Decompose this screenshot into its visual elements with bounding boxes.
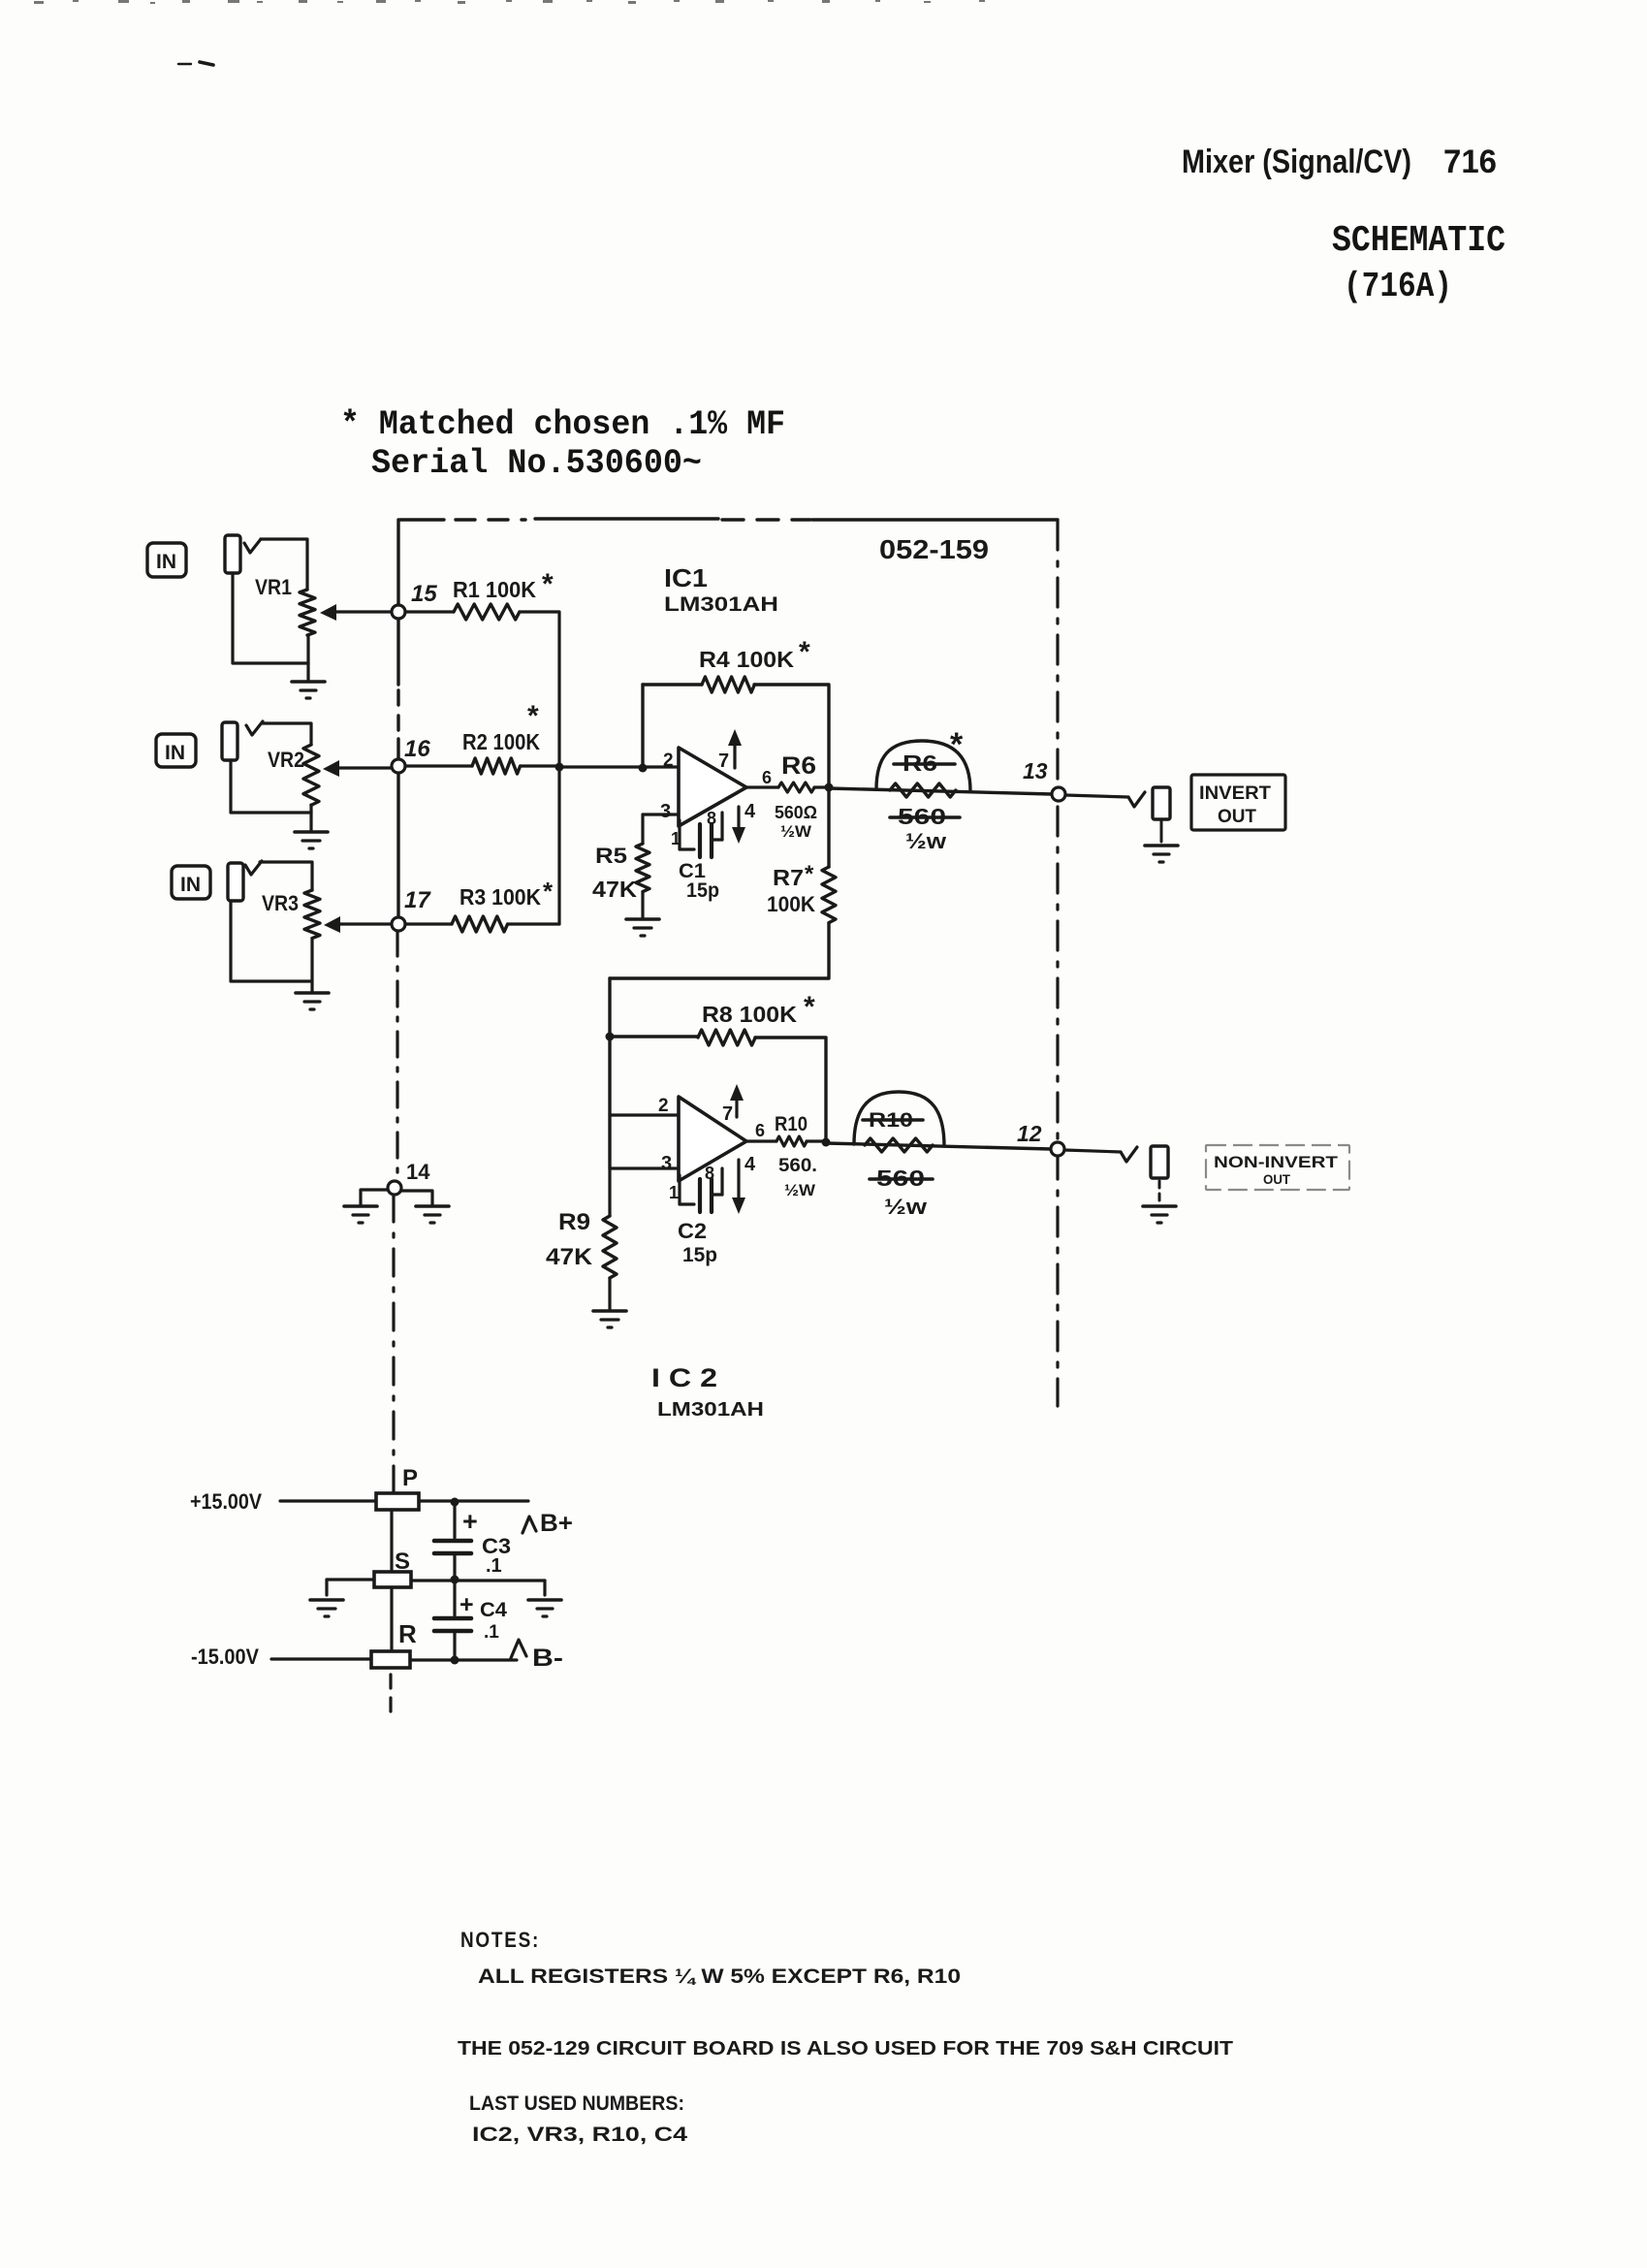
- wire R1 to bus2: [520, 610, 559, 613]
- ground VR3: [296, 993, 329, 1009]
- svg-text:100K: 100K: [767, 892, 815, 916]
- potentiometer VR1: [300, 590, 315, 663]
- svg-text:16: 16: [404, 736, 430, 762]
- NON-INVERT OUT box: [1206, 1145, 1349, 1190]
- connector S: [374, 1572, 411, 1587]
- wire opamp2 out: [746, 1139, 776, 1142]
- svg-text:2: 2: [658, 1096, 669, 1116]
- svg-text:IN: IN: [156, 551, 176, 573]
- ground R9: [593, 1311, 626, 1327]
- label VR3: [262, 891, 299, 915]
- svg-text:SCHEMATIC: SCHEMATIC: [1332, 220, 1505, 262]
- svg-text:C2: C2: [678, 1219, 707, 1243]
- op-amp IC2 triangle: [679, 1097, 746, 1181]
- crossed label R6 trim: [894, 751, 955, 776]
- pin 4 label IC1: [744, 801, 756, 822]
- svg-text:R7: R7: [773, 865, 804, 890]
- svg-text:.1: .1: [486, 1555, 502, 1577]
- ground VR2: [295, 832, 328, 848]
- svg-text:R8 100K: R8 100K: [702, 1002, 797, 1027]
- wire opamp1 out: [746, 785, 778, 788]
- pin 6 label IC2: [755, 1121, 765, 1140]
- svg-text:NON-INVERT: NON-INVERT: [1214, 1153, 1339, 1171]
- label IC2 LM301AH: [657, 1399, 764, 1421]
- label R10: [775, 1113, 808, 1135]
- svg-text:2: 2: [663, 751, 674, 771]
- pin 7 supply arrow IC1: [728, 729, 742, 768]
- wire pot2 to ground: [309, 813, 312, 830]
- wire node13 to jack: [1065, 795, 1128, 797]
- svg-text:3: 3: [661, 1153, 672, 1174]
- wire pot3 to ground: [310, 981, 313, 991]
- resistor R4: [702, 677, 754, 692]
- trimmer dome R10: [854, 1092, 944, 1146]
- svg-text:IC2, VR3, R10, C4: IC2, VR3, R10, C4: [472, 2124, 687, 2146]
- svg-text:*: *: [543, 877, 554, 906]
- wire R6 to junction: [814, 785, 829, 788]
- wire node14 right arm: [401, 1191, 432, 1204]
- connector R: [371, 1651, 410, 1668]
- wire P-S vertical: [390, 1510, 393, 1572]
- svg-text:VR2: VR2: [268, 748, 304, 772]
- op-amp IC1 triangle: [679, 748, 746, 826]
- junction feedback tap IC1: [639, 764, 648, 773]
- svg-text:+: +: [462, 1507, 478, 1536]
- label 15: [411, 581, 437, 607]
- bus wire node14-P dash-dot: [392, 1195, 395, 1491]
- svg-text:15p: 15p: [686, 879, 719, 902]
- label C4 plus: [459, 1591, 474, 1618]
- ground S left: [310, 1600, 343, 1616]
- label R3 100K: [459, 877, 554, 910]
- wire feedback to output junction IC1: [754, 685, 829, 787]
- svg-text:C4: C4: [480, 1599, 507, 1621]
- wire R5 to ground: [641, 892, 644, 917]
- svg-text:R2 100K: R2 100K: [462, 729, 540, 754]
- svg-text:14: 14: [406, 1160, 430, 1184]
- crossed label R10 trim: [863, 1109, 923, 1132]
- svg-text:Serial No.530600~: Serial No.530600~: [371, 444, 702, 483]
- svg-text:*: *: [527, 700, 539, 732]
- IN box 3: [172, 866, 210, 899]
- potentiometer VR3: [304, 890, 320, 981]
- svg-text:+: +: [459, 1591, 474, 1618]
- IN box 2: [156, 734, 196, 767]
- wire -15V to R: [271, 1657, 371, 1660]
- svg-text:P: P: [402, 1465, 418, 1491]
- svg-text:Mixer (Signal/CV): Mixer (Signal/CV): [1182, 144, 1411, 180]
- svg-text:7: 7: [722, 1103, 733, 1125]
- wire +15V to P: [280, 1499, 376, 1502]
- output jack J4: [1153, 787, 1170, 819]
- label (716A): [1344, 267, 1452, 306]
- junction output IC2: [822, 1138, 831, 1147]
- label IC2: [651, 1363, 717, 1392]
- svg-text:560.: 560.: [778, 1156, 817, 1176]
- note all registers: [478, 1965, 961, 1988]
- label C1 15p: [686, 879, 719, 902]
- resistor R1: [454, 604, 520, 620]
- wire R8 right vertical: [755, 1038, 826, 1141]
- label VR1: [255, 575, 292, 599]
- svg-text:R6: R6: [781, 752, 816, 780]
- note 052-129 board: [458, 2038, 1233, 2060]
- svg-text:13: 13: [1023, 758, 1048, 783]
- wire node15 to R1: [405, 610, 454, 613]
- pin 3 label IC1: [660, 801, 671, 822]
- svg-text:7: 7: [718, 751, 729, 772]
- pin 7 label IC2: [722, 1103, 733, 1125]
- svg-text:12: 12: [1017, 1121, 1042, 1146]
- svg-text:R: R: [398, 1619, 417, 1648]
- label R4 100K: [699, 636, 810, 672]
- svg-text:716: 716: [1443, 144, 1497, 180]
- wire pot1 to ground: [306, 663, 309, 681]
- junction R2/bus2: [555, 763, 564, 772]
- wire left vertical IC2: [608, 978, 611, 1168]
- wire jack5 to ground dashed: [1158, 1181, 1161, 1202]
- potentiometer VR2: [303, 745, 319, 813]
- svg-text:B+: B+: [540, 1510, 573, 1537]
- svg-text:4: 4: [744, 801, 756, 822]
- wire R7 bottom to IC2 input: [610, 923, 829, 978]
- svg-text:47K: 47K: [592, 877, 637, 902]
- svg-text:INVERT: INVERT: [1199, 783, 1271, 804]
- svg-text:3: 3: [660, 801, 671, 822]
- node 14: [388, 1181, 401, 1195]
- svg-text:.1: .1: [484, 1622, 499, 1643]
- capacitor C4: [434, 1618, 471, 1631]
- wire node12 to jack: [1064, 1150, 1121, 1152]
- wire R7 top: [827, 787, 830, 867]
- svg-text:LM301AH: LM301AH: [664, 593, 778, 616]
- pin 8 label IC2: [705, 1164, 714, 1183]
- label R6: [781, 752, 816, 780]
- wire jack4 to ground: [1160, 819, 1163, 842]
- label R9: [558, 1209, 590, 1235]
- wire pin3 IC2: [610, 1166, 679, 1169]
- B+ tick: [523, 1517, 536, 1533]
- board outline top border: [400, 519, 1058, 520]
- wire pin3 IC1: [643, 815, 679, 844]
- crossed label 560 trim IC2: [870, 1166, 933, 1191]
- label IC1 LM301AH: [664, 593, 778, 616]
- trimmer zigzag R10: [865, 1138, 933, 1152]
- label SCHEMATIC: [1332, 220, 1505, 262]
- svg-text:OUT: OUT: [1218, 807, 1256, 827]
- label R10 halfW: [784, 1181, 816, 1199]
- label R2 100K: [462, 700, 540, 754]
- svg-text:*: *: [804, 991, 815, 1023]
- label B+: [540, 1510, 573, 1537]
- trimmer dome R6: [876, 741, 970, 791]
- wire pot3 bottom loop: [231, 901, 312, 981]
- svg-text:IN: IN: [180, 874, 201, 896]
- wire junction to opamp input: [559, 765, 679, 768]
- label VR2: [268, 748, 304, 772]
- pin 1 label IC1: [671, 829, 681, 848]
- svg-text:R1 100K: R1 100K: [453, 577, 536, 602]
- wire feedback top IC1: [643, 683, 702, 686]
- wire node14 left arm: [361, 1190, 388, 1204]
- svg-text:6: 6: [762, 768, 772, 787]
- label C1: [679, 860, 706, 882]
- junction R row: [451, 1656, 459, 1665]
- svg-text:I C 2: I C 2: [651, 1363, 717, 1392]
- board outline right dash-dot line: [1056, 521, 1059, 1406]
- node 13: [1052, 787, 1065, 801]
- ground S right: [528, 1600, 561, 1616]
- svg-text:*: *: [542, 568, 554, 600]
- node 16: [392, 759, 405, 773]
- svg-text:6: 6: [755, 1121, 765, 1140]
- wiper arrow VR1: [320, 604, 391, 621]
- svg-text:(716A): (716A): [1344, 267, 1452, 306]
- svg-text:-15.00V: -15.00V: [191, 1645, 259, 1669]
- label R1 100K: [453, 568, 554, 602]
- output jack J5: [1151, 1146, 1168, 1178]
- wiper arrow VR2: [323, 760, 391, 777]
- label 17: [404, 887, 431, 913]
- label C2 15p: [682, 1244, 717, 1266]
- svg-text:IC1: IC1: [664, 563, 708, 592]
- junction C3 top: [451, 1498, 459, 1507]
- wiper arrow VR3: [324, 916, 391, 933]
- label +15.00V: [190, 1489, 262, 1514]
- wire R row right: [410, 1658, 517, 1661]
- pin 3 label IC2: [661, 1153, 672, 1174]
- INVERT OUT box: [1191, 775, 1285, 830]
- label IC1: [664, 563, 708, 592]
- resistor R9: [603, 1216, 617, 1278]
- resistor R7: [822, 867, 836, 923]
- ground R5: [626, 919, 659, 936]
- wire R9 to ground: [608, 1278, 611, 1309]
- capacitor C2: [680, 1168, 722, 1212]
- svg-text:S: S: [395, 1549, 410, 1575]
- label R9 47K: [546, 1244, 593, 1270]
- wire C3 top lead: [453, 1502, 456, 1538]
- svg-text:*: *: [799, 636, 810, 668]
- label C2: [678, 1219, 707, 1243]
- capacitor C3: [434, 1541, 471, 1553]
- label 052-159: [879, 534, 989, 564]
- wire output IC1 to node 13: [829, 788, 1052, 794]
- wire vertical R1-R3 junction line: [557, 613, 560, 924]
- bus wire top segment (corner to node 15): [396, 520, 399, 605]
- wire S row right: [411, 1581, 545, 1595]
- node 15: [392, 605, 405, 619]
- wire R8 left: [610, 1035, 698, 1038]
- bus wire node16-node17: [396, 773, 399, 917]
- svg-text:15p: 15p: [682, 1244, 717, 1266]
- ground node14 left: [344, 1206, 377, 1223]
- wire C4 top lead: [453, 1580, 456, 1615]
- svg-text:OUT: OUT: [1263, 1171, 1290, 1187]
- label P: [402, 1465, 418, 1491]
- bus wire node15-node16 (partly dashed): [396, 619, 399, 759]
- resistor R6: [778, 783, 814, 792]
- wire S-R vertical: [390, 1587, 393, 1651]
- pin 4 label IC2: [744, 1154, 756, 1175]
- svg-text:15: 15: [411, 581, 437, 607]
- svg-text:NOTES:: NOTES:: [460, 1928, 540, 1952]
- label R6 560ohm: [775, 803, 817, 822]
- pin 7 supply arrow IC2: [730, 1084, 744, 1117]
- svg-text:47K: 47K: [546, 1244, 593, 1270]
- ground VR1: [292, 682, 325, 698]
- pin 4 supply arrow IC1: [732, 807, 745, 844]
- wire R2 to junction: [521, 764, 559, 767]
- wire output IC2 to node 12: [826, 1143, 1051, 1149]
- label R7: [773, 861, 814, 890]
- capacitor C1: [680, 813, 722, 857]
- svg-text:R4 100K: R4 100K: [699, 647, 794, 672]
- svg-text:LM301AH: LM301AH: [657, 1399, 764, 1421]
- label 16: [404, 736, 430, 762]
- svg-text:½w: ½w: [905, 829, 947, 853]
- wire C3 bottom lead: [453, 1553, 456, 1579]
- wire P to B+ junction: [419, 1499, 528, 1502]
- jack J1: [225, 535, 240, 573]
- wire pin2 IC2: [610, 1113, 679, 1116]
- svg-text:17: 17: [404, 887, 431, 913]
- wire feedback left vertical IC1: [641, 685, 644, 768]
- label R5 47K: [592, 877, 637, 902]
- svg-text:½W: ½W: [780, 822, 812, 841]
- svg-text:VR3: VR3: [262, 891, 299, 915]
- label R: [398, 1619, 417, 1648]
- connector P: [376, 1493, 419, 1510]
- svg-text:½W: ½W: [784, 1181, 816, 1199]
- junction R8 tap: [606, 1033, 615, 1041]
- svg-text:R5: R5: [595, 844, 627, 868]
- resistor R2: [472, 758, 521, 774]
- pin 7 label IC1: [718, 751, 729, 772]
- label R6 halfW: [780, 822, 812, 841]
- label C3: [482, 1534, 511, 1558]
- svg-text:R10: R10: [775, 1113, 808, 1135]
- label R7 100K: [767, 892, 815, 916]
- label B-: [532, 1645, 563, 1672]
- note matched chosen: [340, 405, 785, 444]
- label halfw trim IC1: [905, 829, 947, 853]
- wire S row left: [327, 1580, 374, 1595]
- wire jack1 to pot top: [244, 539, 307, 590]
- svg-text:R3 100K: R3 100K: [459, 884, 541, 910]
- note last used numbers: [469, 2092, 684, 2115]
- jack J3: [228, 863, 243, 901]
- label 12: [1017, 1121, 1042, 1146]
- svg-text:1: 1: [669, 1183, 679, 1202]
- label C3 .1: [486, 1555, 502, 1577]
- label C4: [480, 1599, 507, 1621]
- svg-text:*: *: [805, 861, 814, 887]
- wire below R dashed: [389, 1675, 392, 1718]
- asterisk near trimmer IC1: [950, 726, 964, 763]
- resistor R5: [636, 844, 649, 892]
- svg-text:* Matched chosen .1% MF: * Matched chosen .1% MF: [340, 405, 785, 444]
- jack J2: [222, 722, 238, 760]
- check mark out1: [1128, 792, 1145, 807]
- pin 4 supply arrow IC2: [732, 1160, 745, 1214]
- label C3 plus: [462, 1507, 478, 1536]
- wire pin3 to R9: [608, 1168, 611, 1216]
- svg-text:B-: B-: [532, 1645, 563, 1672]
- ground out1: [1145, 846, 1178, 862]
- label C4 .1: [484, 1622, 499, 1643]
- wire jack2 to pot top: [246, 721, 311, 745]
- label -15.00V: [191, 1645, 259, 1669]
- note last used list: [472, 2124, 687, 2146]
- ground node14 right: [416, 1206, 449, 1223]
- svg-text:ALL REGISTERS ¼ W 5% EXCEPT: ALL REGISTERS ¼ W 5% EXCEPT R6, R10: [478, 1965, 961, 1988]
- label NOTES:: [460, 1928, 540, 1952]
- svg-text:+15.00V: +15.00V: [190, 1489, 262, 1514]
- svg-text:IN: IN: [165, 742, 185, 764]
- wire pot2 bottom loop: [231, 760, 311, 813]
- label R8 100K: [702, 991, 815, 1027]
- trimmer zigzag R6: [890, 783, 956, 797]
- label R5: [595, 844, 627, 868]
- pin 1 label IC2: [669, 1183, 679, 1202]
- note serial no: [371, 444, 702, 483]
- IN box 1: [147, 543, 186, 577]
- junction S row: [451, 1576, 459, 1584]
- junction output IC1: [825, 783, 834, 792]
- node 12: [1051, 1142, 1064, 1156]
- wire R10 to junction: [807, 1139, 826, 1142]
- check mark out2: [1121, 1147, 1137, 1162]
- pin 8 label IC1: [707, 809, 716, 828]
- resistor R3: [452, 916, 508, 932]
- crossed label 560 trim: [890, 804, 960, 829]
- label 13: [1023, 758, 1048, 783]
- svg-text:560Ω: 560Ω: [775, 803, 817, 822]
- ground out2: [1143, 1206, 1176, 1223]
- resistor R8: [698, 1030, 755, 1045]
- node 17: [392, 917, 405, 931]
- wire R3 to bus2: [508, 922, 559, 925]
- svg-text:VR1: VR1: [255, 575, 292, 599]
- wire pot1 bottom loop: [233, 573, 308, 663]
- svg-text:LAST USED NUMBERS:: LAST USED NUMBERS:: [469, 2092, 684, 2115]
- wire node16 to R2: [405, 764, 472, 767]
- svg-text:½w: ½w: [884, 1195, 928, 1219]
- wire node17 to R3: [405, 922, 452, 925]
- pin 2 label IC1: [663, 751, 674, 771]
- svg-text:052-159: 052-159: [879, 534, 989, 564]
- svg-text:THE 052-129 CIRCUIT BOARD IS A: THE 052-129 CIRCUIT BOARD IS ALSO USED F…: [458, 2038, 1233, 2060]
- wire C4 bottom lead: [453, 1631, 456, 1660]
- bus wire node17-node14 dash-dot: [396, 931, 398, 1181]
- label 14: [406, 1160, 430, 1184]
- pin 6 label IC1: [762, 768, 772, 787]
- B- tick: [511, 1640, 526, 1658]
- wire jack3 to pot top: [245, 861, 312, 890]
- title Mixer (Signal/CV) 716: [1182, 144, 1497, 180]
- label S: [395, 1549, 410, 1575]
- svg-text:4: 4: [744, 1154, 756, 1175]
- resistor R10: [776, 1136, 807, 1146]
- svg-text:R9: R9: [558, 1209, 590, 1235]
- label halfw trim IC2: [884, 1195, 928, 1219]
- pin 2 label IC2: [658, 1096, 669, 1116]
- label R10 560: [778, 1156, 817, 1176]
- svg-text:*: *: [950, 726, 964, 763]
